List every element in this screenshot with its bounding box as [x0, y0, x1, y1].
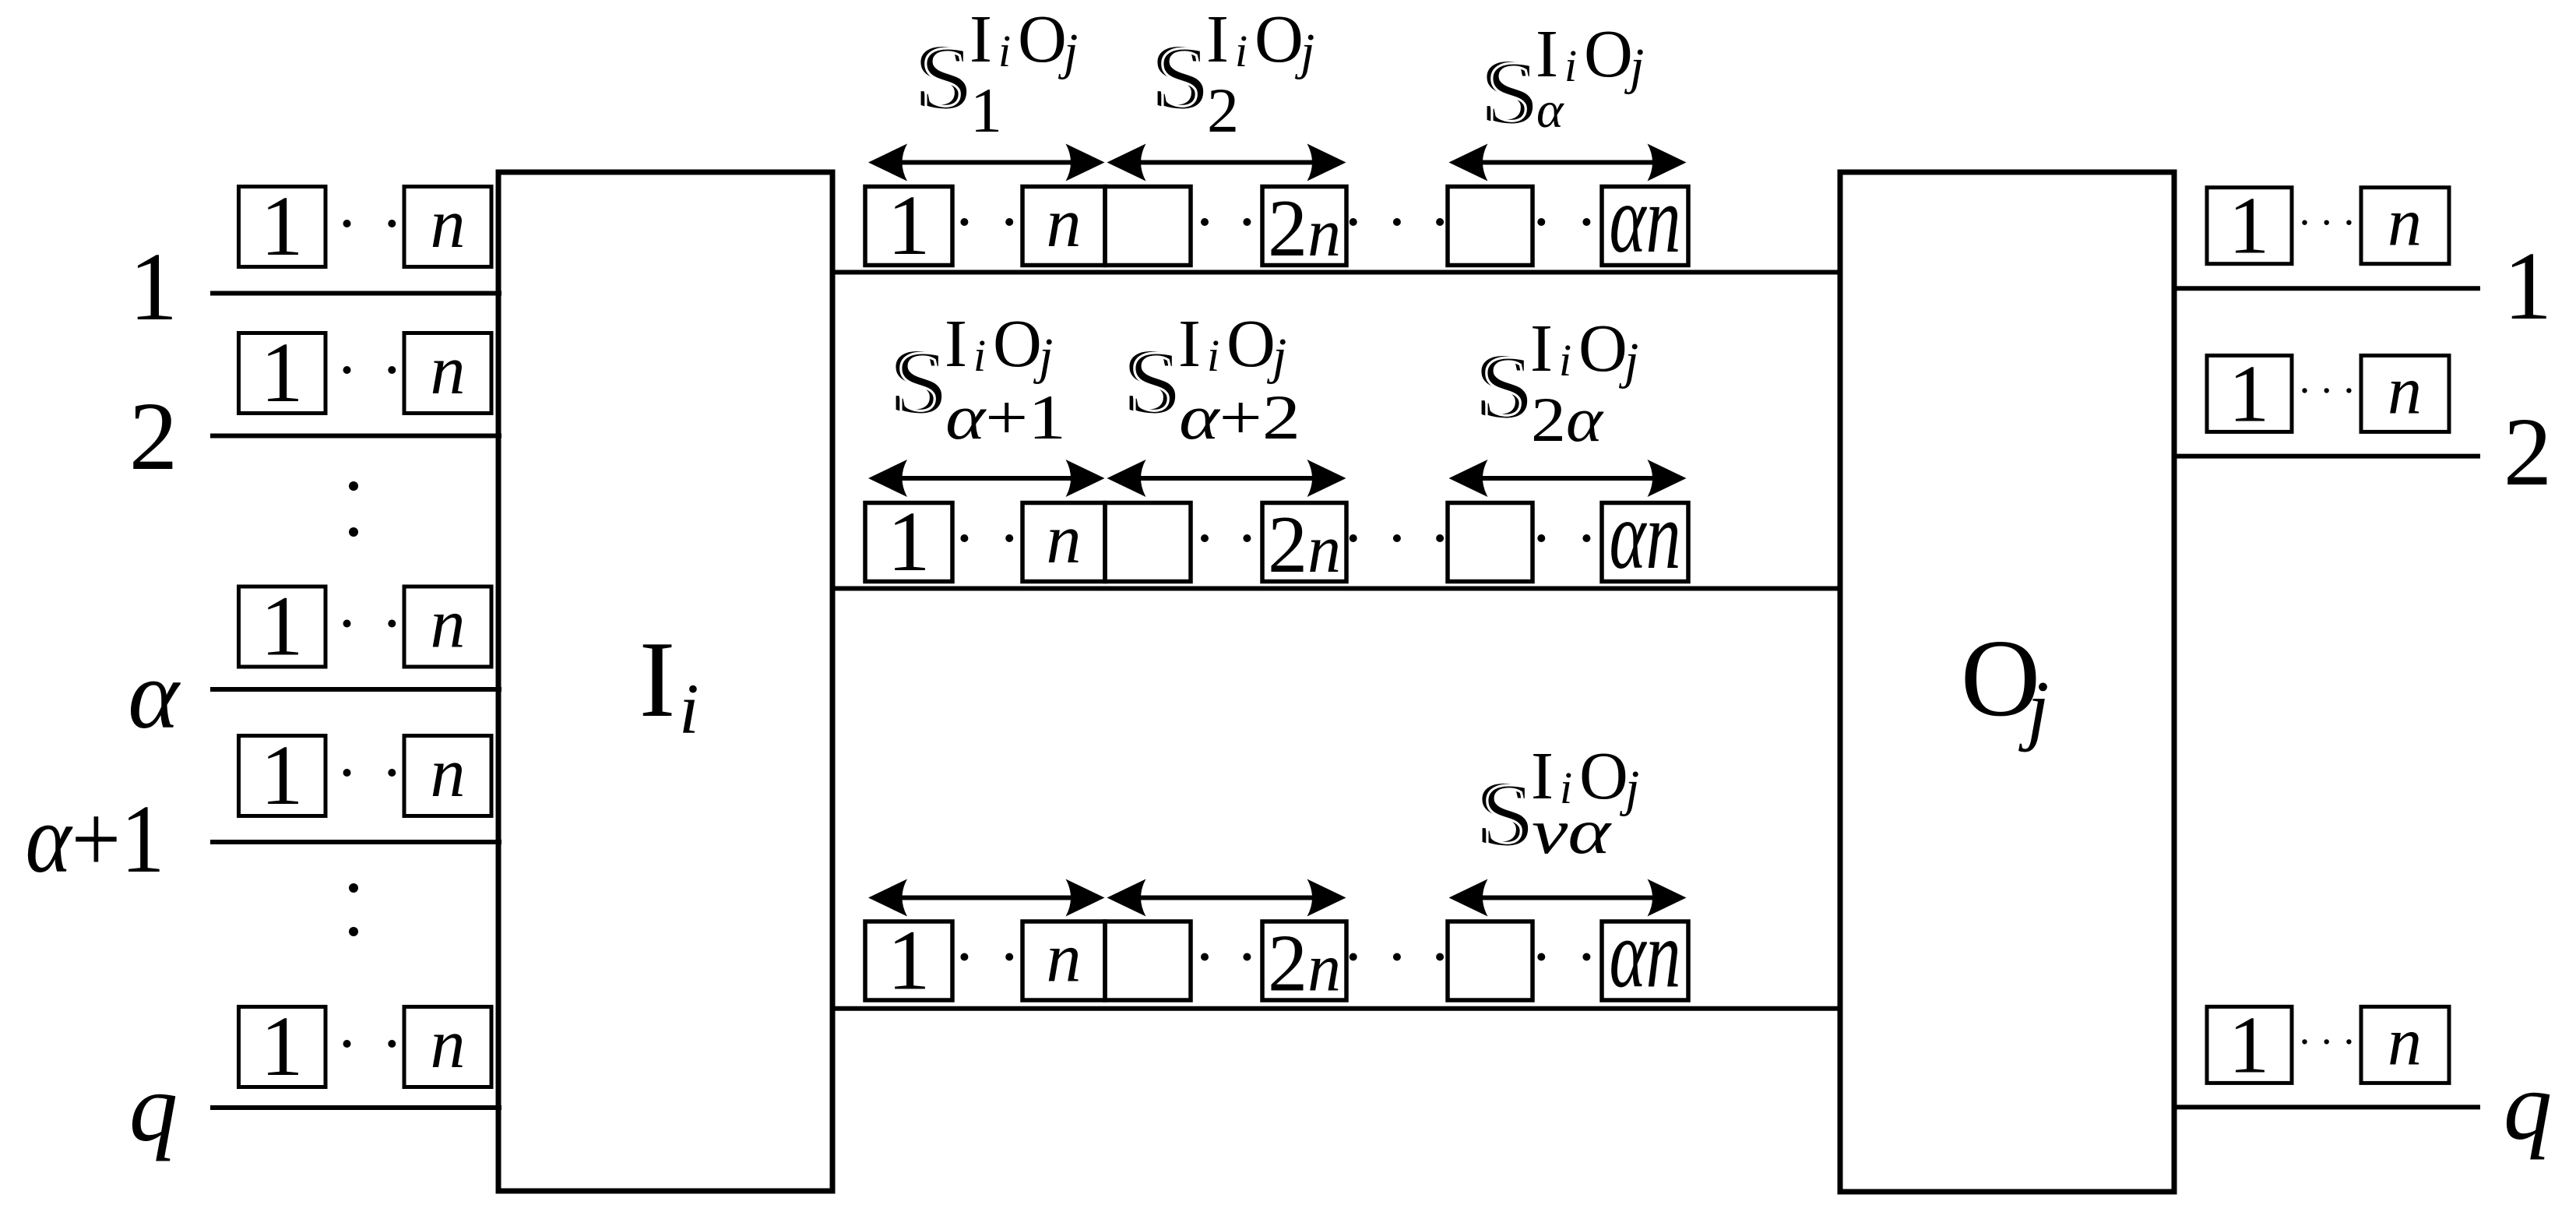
label I_i: [639, 619, 699, 749]
wire output link q: [2173, 1105, 2480, 1109]
timeslot group label S_2alpha: [1475, 310, 1638, 455]
frame slot n on input link 2: [404, 332, 491, 414]
timeslot group label S_valpha: [1476, 738, 1639, 867]
wire frame row 3 between I_i and O_j: [832, 1006, 1840, 1011]
label output link q: [2504, 1053, 2553, 1161]
svg-text:α+1: α+1: [26, 786, 165, 893]
wire frame row 2 between I_i and O_j: [832, 587, 1840, 591]
double arrow b row 3: [1107, 879, 1346, 917]
svg-text:2n: 2n: [1268, 918, 1341, 1009]
timeslot box 2n row 2: [1262, 499, 1346, 590]
svg-text:S: S: [1156, 28, 1210, 129]
svg-text:2n: 2n: [1268, 499, 1341, 590]
double arrow b row 2: [1107, 460, 1346, 497]
frame slot 1 on input link 2: [239, 325, 326, 420]
timeslot box 1 row 2: [865, 494, 952, 589]
double arrow c row 2: [1449, 460, 1687, 497]
input module box I_i: [498, 172, 832, 1191]
timeslot group label S_alpha+2: [1123, 305, 1300, 453]
dots between empty slot and alpha-n row 1: [1537, 218, 1590, 226]
dots between slots on output link q: [2302, 1039, 2351, 1044]
svg-text:n: n: [431, 1006, 466, 1083]
dots between empty slot and 2n row 3: [1201, 953, 1251, 961]
svg-text:I: I: [1530, 310, 1553, 386]
timeslot box alphan row 3: [1602, 901, 1688, 1008]
svg-text:1: 1: [261, 728, 304, 823]
wire frame row 1 between I_i and O_j: [832, 270, 1840, 275]
svg-text:2α: 2α: [1531, 384, 1604, 455]
svg-text:vα: vα: [1532, 795, 1612, 867]
timeslot box empty row 3: [1105, 921, 1191, 1000]
svg-text:1: 1: [970, 75, 1002, 146]
separator dots after 2n row 3: [1350, 953, 1444, 961]
vertical dots between input links alpha+1 and q: [349, 883, 358, 936]
timeslot group label S_2: [1151, 1, 1314, 146]
wire input link 2: [210, 434, 501, 439]
svg-text:n: n: [1047, 920, 1082, 997]
dots between slots on output link 1: [2302, 220, 2351, 225]
timeslot box n row 2: [1022, 501, 1105, 582]
frame slot n on output link q: [2361, 1004, 2449, 1083]
dots between slots on input link alpha+1: [343, 769, 396, 777]
dots between slots on input link 1: [343, 220, 396, 227]
dots between slots on output link 2: [2302, 388, 2351, 393]
svg-text:S: S: [894, 333, 948, 434]
svg-text:1: 1: [2504, 233, 2553, 340]
svg-text:1: 1: [888, 178, 931, 273]
svg-text:n: n: [431, 586, 466, 663]
timeslot box 2n row 3: [1262, 918, 1346, 1009]
timeslot box 1 row 1: [865, 178, 952, 273]
double arrow a row 3: [868, 879, 1105, 917]
svg-text:i: i: [1207, 330, 1219, 381]
svg-text:I: I: [1536, 16, 1558, 91]
dots between empty slot and 2n row 2: [1201, 534, 1251, 542]
label input link alpha: [128, 642, 181, 749]
separator dots after 2n row 2: [1350, 534, 1444, 542]
double arrow c row 1: [1449, 144, 1687, 181]
timeslot box alphan row 1: [1602, 166, 1688, 273]
dots between empty slot and 2n row 1: [1201, 218, 1251, 226]
svg-text:α: α: [1536, 82, 1564, 139]
output module box O_j: [1840, 172, 2174, 1192]
dots between empty slot and alpha-n row 2: [1537, 534, 1590, 542]
svg-text:αn: αn: [1610, 166, 1681, 273]
label input link 2: [129, 383, 178, 491]
svg-text:n: n: [2388, 353, 2422, 428]
frame slot n on input link q: [404, 1006, 491, 1087]
label output link 1: [2504, 233, 2553, 340]
svg-text:2: 2: [129, 383, 178, 491]
svg-text:2n: 2n: [1268, 182, 1341, 273]
frame slot 1 on output link 1: [2207, 180, 2292, 271]
wire output link 2: [2173, 454, 2480, 459]
svg-text:I: I: [1206, 1, 1229, 76]
timeslot box n row 1: [1022, 185, 1105, 266]
svg-text:1: 1: [261, 999, 304, 1094]
frame slot 1 on input link 1: [239, 178, 326, 273]
svg-text:α+1: α+1: [945, 382, 1066, 453]
double arrow b row 1: [1107, 144, 1346, 181]
label input link 1: [129, 234, 178, 341]
frame slot 1 on output link 2: [2207, 347, 2292, 439]
svg-text:O: O: [1226, 305, 1276, 381]
frame slot 1 on input link alpha: [239, 579, 326, 674]
timeslot box empty row 2: [1105, 503, 1191, 582]
svg-text:O: O: [1018, 1, 1067, 76]
svg-text:i: i: [1559, 335, 1571, 386]
double arrow c row 3: [1449, 879, 1687, 917]
svg-text:1: 1: [261, 325, 304, 420]
timeslot box n row 3: [1022, 920, 1105, 1001]
timeslot box alphan row 2: [1602, 482, 1688, 589]
frame slot n on output link 2: [2361, 353, 2449, 432]
svg-text:1: 1: [261, 178, 304, 273]
svg-text:S: S: [1128, 333, 1182, 434]
wire input link 1: [210, 291, 501, 296]
double arrow a row 2: [868, 460, 1105, 497]
dots between timeslot 1 and n row 2: [960, 534, 1013, 542]
svg-text:i: i: [679, 669, 699, 749]
svg-text:i: i: [1564, 41, 1577, 91]
wire input link alpha: [210, 687, 501, 692]
svg-text:n: n: [431, 735, 466, 812]
timeslot box empty row 2: [1448, 503, 1533, 582]
timeslot group label S_1: [914, 1, 1078, 146]
timeslot group label S_alpha: [1480, 16, 1644, 144]
timeslot group label S_alpha+1: [889, 305, 1066, 453]
svg-text:I: I: [639, 619, 676, 740]
dots between slots on input link 2: [343, 366, 396, 374]
svg-text:n: n: [2388, 185, 2422, 261]
svg-text:1: 1: [2229, 999, 2270, 1090]
svg-text:n: n: [431, 185, 466, 262]
frame slot 1 on input link alpha+1: [239, 728, 326, 823]
wire input link alpha+1: [210, 840, 501, 844]
svg-text:S: S: [1485, 43, 1540, 144]
timeslot box empty row 3: [1448, 921, 1533, 1000]
frame slot n on input link alpha+1: [404, 735, 491, 816]
svg-text:O: O: [1584, 16, 1633, 91]
frame slot n on output link 1: [2361, 185, 2449, 264]
frame slot 1 on input link q: [239, 999, 326, 1094]
svg-text:α+2: α+2: [1179, 382, 1300, 453]
svg-text:1: 1: [888, 913, 931, 1008]
svg-text:i: i: [1235, 26, 1248, 76]
timeslot box empty row 1: [1448, 187, 1533, 266]
svg-text:S: S: [1480, 765, 1535, 866]
svg-text:αn: αn: [1610, 901, 1681, 1008]
svg-text:n: n: [431, 332, 466, 409]
label input link q: [129, 1055, 178, 1162]
svg-text:q: q: [129, 1055, 178, 1162]
dots between timeslot 1 and n row 1: [960, 218, 1013, 226]
svg-text:O: O: [1578, 310, 1628, 386]
vertical dots between input links 2 and alpha: [349, 481, 358, 537]
svg-text:1: 1: [261, 579, 304, 674]
svg-text:O: O: [993, 305, 1042, 381]
double arrow a row 1: [868, 144, 1105, 181]
svg-text:2: 2: [1207, 75, 1239, 146]
svg-text:1: 1: [2229, 180, 2270, 271]
wire input link q: [210, 1105, 501, 1110]
svg-text:αn: αn: [1610, 482, 1681, 589]
svg-text:n: n: [1047, 185, 1082, 262]
svg-text:I: I: [970, 1, 992, 76]
svg-text:I: I: [945, 305, 967, 381]
dots between slots on input link alpha: [343, 620, 396, 628]
dots between timeslot 1 and n row 3: [960, 953, 1013, 961]
label input link alpha+1: [26, 786, 165, 893]
frame slot n on input link 1: [404, 185, 491, 267]
frame slot 1 on output link q: [2207, 999, 2292, 1090]
svg-text:n: n: [1047, 501, 1082, 578]
svg-text:O: O: [1255, 1, 1304, 76]
svg-text:S: S: [919, 28, 973, 129]
svg-text:n: n: [2388, 1004, 2422, 1080]
svg-text:α: α: [128, 642, 181, 749]
timeslot box empty row 1: [1105, 187, 1191, 266]
label O_j: [1961, 616, 2050, 753]
dots between slots on input link q: [343, 1040, 396, 1048]
frame slot n on input link alpha: [404, 586, 491, 668]
svg-text:i: i: [998, 26, 1011, 76]
label output link 2: [2504, 399, 2553, 506]
svg-text:1: 1: [888, 494, 931, 589]
wire output link 1: [2173, 286, 2480, 291]
svg-text:i: i: [973, 330, 986, 381]
separator dots after 2n row 1: [1350, 218, 1444, 226]
svg-text:1: 1: [2229, 347, 2270, 439]
svg-text:I: I: [1178, 305, 1201, 381]
dots between empty slot and alpha-n row 3: [1537, 953, 1590, 961]
svg-text:q: q: [2504, 1053, 2553, 1161]
timeslot box 2n row 1: [1262, 182, 1346, 273]
svg-text:2: 2: [2504, 399, 2553, 506]
svg-text:S: S: [1480, 337, 1534, 439]
svg-text:1: 1: [129, 234, 178, 341]
timeslot box 1 row 3: [865, 913, 952, 1008]
